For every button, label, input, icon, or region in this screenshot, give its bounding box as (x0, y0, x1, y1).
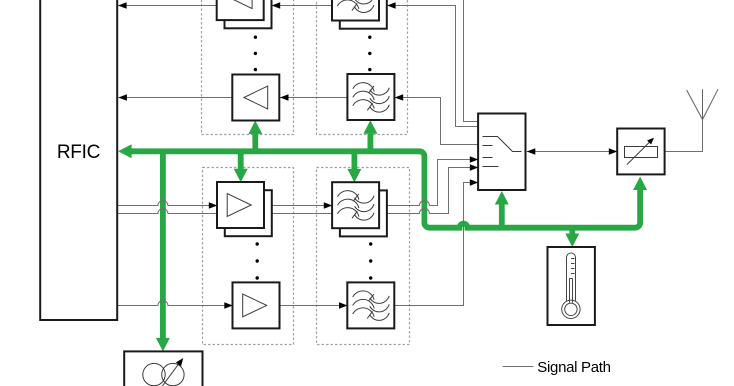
coupler arrow (158, 360, 182, 386)
TX filter bank wave symbol (338, 191, 375, 221)
coupler circles (143, 363, 165, 385)
green branch down to TX filter (351, 149, 357, 169)
green branch up to antenna switch (499, 205, 505, 231)
TX bank ellipsis dots column 1 (256, 242, 259, 245)
RX filter single box (347, 74, 394, 120)
TX PA single box (233, 282, 280, 328)
TX filter single box (347, 282, 394, 328)
wire TX row1 second path RFIC to switch (117, 168, 478, 214)
RX LNA bank amplifier triangle (228, 0, 252, 9)
wire TX row2 filter to switch (394, 183, 478, 306)
wire TX row1 filter to switch (379, 160, 478, 206)
wire TX row2 RFIC to PA (117, 301, 232, 306)
green branch down to temperature sensor (569, 225, 575, 234)
RX filter bank stacked front box (332, 0, 379, 21)
RX bank ellipsis dots column 1 (254, 36, 257, 39)
wire TX row1 PA to filter (264, 205, 332, 207)
wire switch to tuner bidirectional (527, 151, 618, 153)
wire TX row2 PA to filter (280, 305, 348, 307)
antenna switch contacts and arm (483, 137, 522, 167)
green arrowhead into TX PA (234, 169, 248, 183)
green control path main bus (130, 151, 640, 227)
green arrowhead into coupler (156, 338, 170, 352)
svg-text:Signal Path: Signal Path (537, 359, 610, 376)
antenna switch box (478, 114, 525, 191)
dashed group box RX filter bank (317, 0, 408, 135)
green arrowhead into antenna tuner (633, 177, 647, 191)
svg-text:RFIC: RFIC (57, 142, 100, 163)
temperature sensor box (548, 247, 595, 325)
wire tuner to antenna (665, 120, 703, 152)
dashed group box TX filter bank (317, 168, 410, 345)
RX filter bank wave symbol (337, 0, 374, 12)
TX filter wave symbol (353, 291, 390, 321)
RX LNA amplifier triangle (244, 86, 268, 109)
dashed group box RX LNA bank (202, 0, 294, 135)
RX filter wave symbol (353, 83, 390, 113)
RX filter bank stacked back box (340, 0, 387, 29)
green arrowhead into RX filter (363, 120, 377, 134)
thermometer icon (562, 253, 580, 318)
green arrowhead into RFIC (118, 144, 132, 158)
directional coupler box (124, 351, 202, 386)
TX filter bank stacked front box (332, 182, 379, 228)
antenna tuner box (617, 129, 664, 175)
wire RX row2 filter to LNA (280, 97, 348, 99)
wire RX row0 from top to switch (464, 0, 479, 122)
TX PA bank stacked front box (217, 182, 264, 228)
antenna (687, 89, 718, 119)
RX LNA bank stacked front box (217, 0, 264, 20)
wire RX row2 switch to filter (395, 98, 479, 145)
antenna tuner element rectangle (625, 147, 658, 158)
green branch up to RX LNA (252, 134, 258, 154)
green arrowhead into TX filter (347, 169, 361, 183)
TX bank ellipsis dots column 2 (369, 242, 372, 245)
RX bank ellipsis dots column 2 (368, 36, 371, 39)
green arrowhead into antenna switch (495, 191, 509, 205)
wire RX row1 filter to LNA (272, 5, 332, 7)
dashed group box TX PA bank (203, 168, 294, 345)
antenna tuner arrow (627, 140, 652, 165)
green arrowhead into RX LNA (248, 121, 262, 135)
green arrowhead into temperature sensor (565, 234, 579, 248)
legend signal path sample line (503, 366, 534, 368)
TX PA bank amplifier triangle (227, 194, 251, 217)
wire TX row1 RFIC to PA (117, 201, 217, 206)
TX PA bank stacked back box (225, 190, 272, 236)
green branch down to TX PA (238, 149, 244, 169)
wire RX row2 LNA to RFIC (118, 97, 232, 99)
TX PA amplifier triangle (243, 294, 267, 317)
green branch to coupler (160, 149, 166, 339)
wire RX row1 switch to filter (387, 6, 478, 127)
green branch up to RX filter (367, 134, 373, 154)
RFIC block (40, 0, 117, 320)
TX filter bank stacked back box (340, 190, 387, 236)
RX LNA bank stacked back box (225, 0, 272, 28)
wire RX row1 LNA to RFIC (118, 5, 217, 7)
RX LNA single box (232, 75, 279, 121)
